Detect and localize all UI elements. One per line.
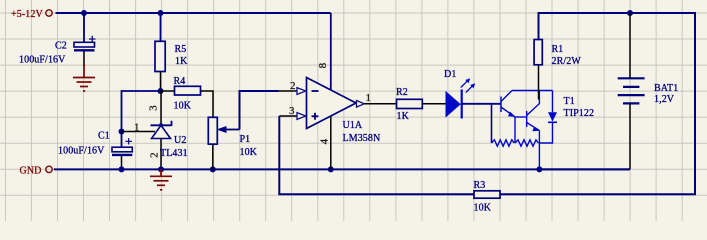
svg-text:100uF/16V: 100uF/16V <box>19 55 66 66</box>
node junction T1 emitter <box>536 166 542 172</box>
svg-text:C2: C2 <box>55 41 67 52</box>
svg-text:1K: 1K <box>397 111 410 122</box>
power port +5-12V <box>11 9 52 20</box>
node junction pin1/C1 <box>119 129 125 135</box>
svg-text:TL431: TL431 <box>160 148 188 159</box>
svg-text:TIP122: TIP122 <box>564 108 595 119</box>
pin 4 <box>319 116 331 169</box>
resistor R5 <box>155 41 188 71</box>
wire R1 top to battery top <box>500 13 695 194</box>
svg-text:R5: R5 <box>175 44 187 55</box>
svg-text:T1: T1 <box>564 96 575 107</box>
svg-text:P1: P1 <box>240 134 251 145</box>
pin 3 <box>279 105 306 119</box>
wire to R4 <box>161 90 175 92</box>
capacitor C1 <box>58 131 132 170</box>
pin 2 <box>279 80 306 94</box>
wire R1 bottom pin <box>538 65 540 100</box>
svg-text:C1: C1 <box>98 131 110 142</box>
wire D1 to T1 base <box>462 103 501 105</box>
TL431 U2 <box>134 91 188 169</box>
power port GND <box>20 166 53 177</box>
wire P1 bottom <box>212 144 214 169</box>
op-amp U1A <box>307 78 381 145</box>
wire left column R5 junction to C1 <box>122 91 161 147</box>
wire top rail <box>56 12 331 14</box>
resistor R2 <box>396 87 422 122</box>
wire wiper up to pin2 row <box>240 91 279 130</box>
wire base node down <box>491 104 493 143</box>
svg-text:+5-12V: +5-12V <box>11 9 43 20</box>
wire R5 bottom <box>160 72 162 92</box>
wire R2 to D1 <box>422 103 462 105</box>
wire R4 right to P1 top <box>201 91 214 117</box>
svg-text:1,2V: 1,2V <box>654 94 675 105</box>
wire rail corner to battery bottom <box>539 168 629 170</box>
battery BAT1 <box>618 13 679 169</box>
node junction U2 anode <box>158 166 164 172</box>
ground under C2 <box>73 64 95 91</box>
svg-text:2R/2W: 2R/2W <box>552 56 582 67</box>
transistor T1 TIP122 <box>492 91 553 170</box>
node junction op-amp pin4 <box>328 166 334 172</box>
node junction C1 bottom <box>119 166 125 172</box>
pin 1 output <box>357 92 397 107</box>
potentiometer P1 <box>208 117 257 158</box>
ground under rail at U2 <box>150 169 172 189</box>
svg-text:1: 1 <box>134 122 140 134</box>
resistor R4 <box>174 76 201 112</box>
svg-text:1K: 1K <box>175 56 188 67</box>
wire U2 ref pin1 <box>122 131 156 133</box>
resistor R1 <box>534 40 581 68</box>
wire ground rail <box>54 168 630 170</box>
svg-text:10K: 10K <box>240 147 258 158</box>
pin 8 <box>317 13 331 90</box>
svg-text:R1: R1 <box>552 44 564 55</box>
svg-text:3: 3 <box>148 105 160 111</box>
capacitor C2 <box>19 36 96 66</box>
node junction battery top <box>627 10 633 16</box>
svg-text:GND: GND <box>20 166 42 177</box>
svg-text:R2: R2 <box>396 87 408 98</box>
svg-text:1: 1 <box>366 92 372 104</box>
node junction P1 bottom <box>210 166 216 172</box>
svg-text:R3: R3 <box>474 180 486 191</box>
svg-text:R4: R4 <box>174 76 186 87</box>
svg-text:3: 3 <box>289 105 295 117</box>
svg-text:4: 4 <box>319 138 331 144</box>
resistor R3 <box>474 180 501 214</box>
node junction C2 top <box>81 10 87 16</box>
svg-text:2: 2 <box>290 80 296 92</box>
svg-text:10K: 10K <box>174 101 192 112</box>
wire C2 drop <box>83 13 85 42</box>
svg-text:2: 2 <box>149 152 161 158</box>
svg-text:D1: D1 <box>444 69 456 80</box>
svg-text:U2: U2 <box>174 135 186 146</box>
wire pin3 feedback to R3 rail <box>279 116 474 194</box>
LED D1 <box>444 69 475 119</box>
svg-text:BAT1: BAT1 <box>654 83 678 94</box>
wire R5 drop <box>160 13 162 41</box>
svg-text:10K: 10K <box>474 203 492 214</box>
svg-text:8: 8 <box>317 62 329 68</box>
svg-text:U1A: U1A <box>343 120 363 131</box>
svg-text:LM358N: LM358N <box>343 133 381 144</box>
node junction R5/R4 <box>158 88 164 94</box>
svg-text:100uF/16V: 100uF/16V <box>58 146 105 157</box>
node junction R5 top <box>158 10 164 16</box>
